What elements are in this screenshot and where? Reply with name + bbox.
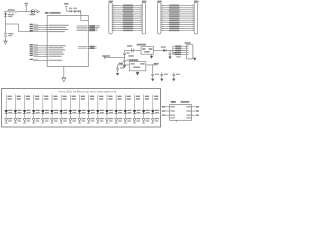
svg-text:Green LEDs, full filled on top: Green LEDs, full filled on top row in re…: [59, 90, 117, 93]
